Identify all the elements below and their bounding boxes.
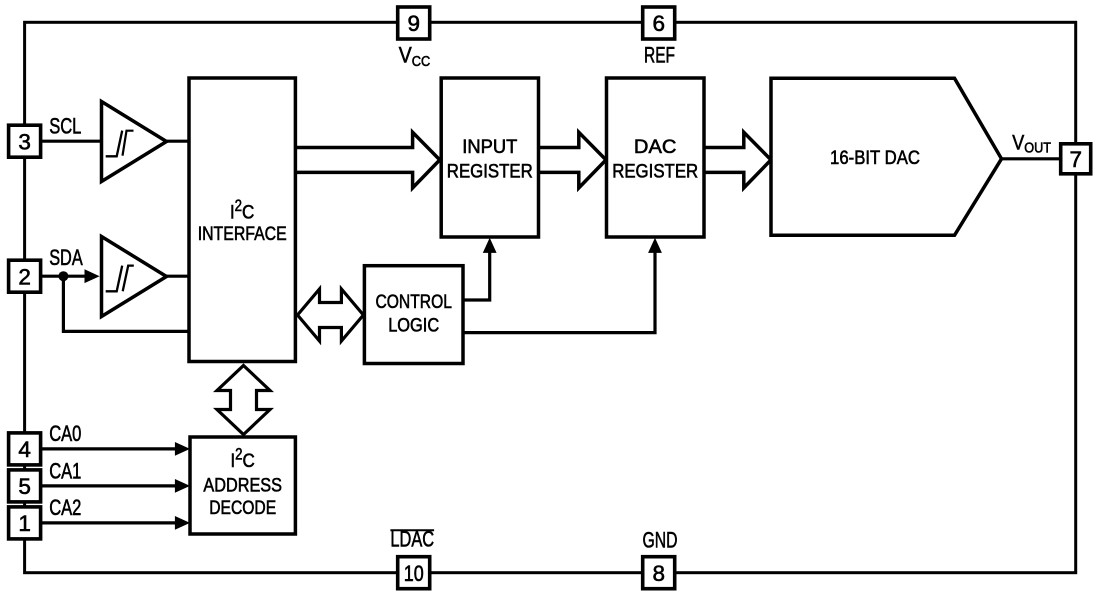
pin 7 bbox=[1061, 144, 1091, 174]
svg-text:REGISTER: REGISTER bbox=[612, 161, 698, 183]
pin 3 bbox=[9, 125, 41, 157]
pin 6 bbox=[643, 7, 675, 39]
pin 2 bbox=[9, 260, 41, 292]
svg-text:8: 8 bbox=[652, 561, 665, 586]
pin 1 bbox=[9, 507, 41, 539]
junction dot SDA bbox=[58, 271, 68, 281]
svg-text:2: 2 bbox=[18, 264, 31, 289]
wire SDA junction to buffer with arrowhead bbox=[63, 269, 99, 283]
block INPUT REGISTER bbox=[441, 78, 538, 237]
svg-text:10: 10 bbox=[404, 561, 424, 586]
svg-text:1: 1 bbox=[18, 511, 31, 536]
svg-text:CA0: CA0 bbox=[49, 421, 81, 446]
bus arrow input register to DAC register bbox=[539, 132, 607, 188]
wire SDA pin2 to junction bbox=[41, 275, 64, 278]
svg-text:ADDRESS: ADDRESS bbox=[203, 475, 282, 497]
wire CA1 pin5 to address decode with arrowhead bbox=[41, 479, 190, 493]
svg-text:VOUT: VOUT bbox=[1012, 132, 1051, 157]
wire CA0 pin4 to address decode with arrowhead bbox=[41, 442, 190, 456]
svg-text:DECODE: DECODE bbox=[209, 497, 276, 519]
wire control logic to DAC register with arrowhead bbox=[463, 238, 662, 333]
svg-text:CA1: CA1 bbox=[49, 459, 81, 484]
svg-text:7: 7 bbox=[1069, 147, 1082, 172]
bus double arrow I2C interface and address decode bbox=[217, 366, 270, 435]
svg-text:SDA: SDA bbox=[49, 245, 82, 270]
block CONTROL LOGIC bbox=[364, 266, 463, 364]
wire SCL buffer output to I2C interface bbox=[166, 140, 190, 143]
pin 4 bbox=[9, 433, 41, 465]
block I2C INTERFACE bbox=[189, 78, 295, 362]
svg-text:5: 5 bbox=[18, 474, 31, 499]
svg-text:REF: REF bbox=[644, 43, 675, 68]
svg-text:16-BIT DAC: 16-BIT DAC bbox=[830, 147, 920, 169]
bus double arrow I2C interface and control logic bbox=[298, 289, 364, 341]
svg-text:6: 6 bbox=[652, 11, 665, 36]
svg-text:4: 4 bbox=[18, 437, 31, 462]
wire VOUT from DAC to pin7 bbox=[1000, 157, 1061, 160]
schmitt buffer SDA bbox=[102, 237, 167, 317]
svg-text:DAC: DAC bbox=[634, 136, 677, 158]
block 16-BIT DAC bbox=[771, 78, 1002, 235]
wire SCL pin3 to buffer bbox=[41, 140, 101, 143]
svg-text:VCC: VCC bbox=[399, 42, 431, 70]
bus arrow I2C interface to input register bbox=[295, 132, 440, 188]
block DAC REGISTER bbox=[607, 78, 705, 237]
pin 10 bbox=[398, 557, 430, 589]
pin 9 bbox=[398, 7, 430, 39]
svg-text:INPUT: INPUT bbox=[462, 136, 517, 158]
svg-text:3: 3 bbox=[18, 129, 31, 154]
svg-text:SCL: SCL bbox=[49, 113, 81, 138]
wire SDA feedback from junction down and right to I2C interface bbox=[63, 276, 189, 331]
schmitt buffer SCL bbox=[102, 102, 167, 182]
label LDAC with overline bbox=[390, 526, 434, 551]
svg-text:9: 9 bbox=[407, 11, 420, 36]
svg-text:CONTROL: CONTROL bbox=[375, 291, 452, 313]
svg-text:LOGIC: LOGIC bbox=[388, 315, 439, 337]
svg-text:INTERFACE: INTERFACE bbox=[198, 223, 287, 245]
wire SDA buffer output to I2C interface bbox=[166, 275, 190, 278]
bus arrow DAC register to 16-bit DAC bbox=[704, 132, 771, 188]
pin 5 bbox=[9, 470, 41, 502]
wire CA2 pin1 to address decode with arrowhead bbox=[41, 516, 190, 530]
svg-text:REGISTER: REGISTER bbox=[447, 161, 533, 183]
pin 8 bbox=[643, 557, 675, 589]
svg-text:CA2: CA2 bbox=[49, 495, 81, 520]
wire control logic to input register with arrowhead bbox=[463, 238, 497, 300]
svg-text:GND: GND bbox=[643, 528, 678, 553]
block I2C ADDRESS DECODE bbox=[190, 437, 295, 534]
